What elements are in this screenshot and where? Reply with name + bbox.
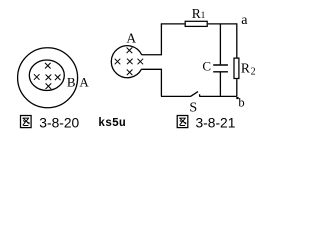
svg-text:A: A bbox=[126, 31, 136, 46]
resistor R1 bbox=[185, 21, 207, 26]
svg-text:C: C bbox=[202, 59, 211, 74]
field cross mid-right (coil fig 3-8-21) bbox=[138, 59, 144, 65]
svg-text:B: B bbox=[67, 75, 76, 90]
wire capacitor branch lower bbox=[219, 73, 221, 97]
svg-text:ks5u: ks5u bbox=[98, 117, 126, 130]
svg-text:1: 1 bbox=[201, 10, 206, 20]
inner circle B (coil, fig 3-8-20) bbox=[29, 60, 64, 91]
svg-text:A: A bbox=[79, 75, 89, 90]
caption hanzi "tu" (fig 3-8-21) bbox=[177, 116, 188, 128]
coil circle A (fig 3-8-21, open at lead side) bbox=[111, 46, 141, 78]
wire bottom right segment bbox=[199, 95, 237, 97]
field cross mid-left (fig 3-8-20) bbox=[34, 74, 40, 80]
switch S fixed contact bbox=[199, 94, 201, 96]
field cross bottom (coil fig 3-8-21) bbox=[127, 70, 133, 76]
wire top coil lead bbox=[142, 54, 162, 56]
svg-text:3-8-20: 3-8-20 bbox=[39, 115, 79, 130]
svg-text:b: b bbox=[238, 95, 244, 109]
field cross bottom (fig 3-8-20) bbox=[46, 83, 52, 89]
field cross top (coil fig 3-8-21) bbox=[127, 48, 133, 54]
wire bottom coil lead bbox=[141, 68, 161, 70]
node b terminal dot bbox=[236, 97, 238, 99]
field cross mid-center (coil fig 3-8-21) bbox=[127, 59, 133, 65]
wire top middle segment bbox=[208, 23, 237, 25]
field cross mid-center (fig 3-8-20) bbox=[46, 75, 52, 81]
svg-text:a: a bbox=[241, 13, 248, 28]
wire bottom left segment bbox=[161, 95, 191, 97]
svg-text:2: 2 bbox=[251, 66, 256, 77]
wire right vertical lower bbox=[236, 79, 238, 96]
wire top left segment bbox=[161, 23, 185, 25]
switch S blade bbox=[191, 92, 199, 97]
capacitor C plates bbox=[213, 65, 228, 72]
resistor R2 bbox=[234, 58, 239, 78]
svg-text:R: R bbox=[192, 6, 201, 21]
svg-text:S: S bbox=[189, 100, 197, 115]
wire capacitor branch upper bbox=[219, 24, 221, 65]
field cross mid-right (fig 3-8-20) bbox=[55, 75, 61, 81]
field cross mid-left (coil fig 3-8-21) bbox=[115, 59, 121, 65]
field cross top (fig 3-8-20) bbox=[45, 63, 51, 69]
wire right vertical upper bbox=[236, 23, 238, 57]
wire left vertical lower bbox=[160, 69, 162, 97]
svg-text:R: R bbox=[241, 61, 250, 76]
caption hanzi "tu" (fig 3-8-20) bbox=[21, 116, 32, 128]
wire left vertical upper bbox=[160, 24, 162, 55]
outer circle A (field boundary, fig 3-8-20) bbox=[18, 48, 78, 108]
svg-text:3-8-21: 3-8-21 bbox=[196, 115, 236, 130]
